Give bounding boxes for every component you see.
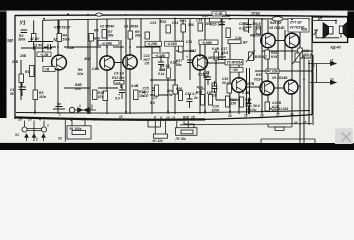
svg-text:2к: 2к bbox=[193, 96, 198, 100]
svg-text:56к: 56к bbox=[108, 34, 114, 38]
svg-text:2б3Б: 2б3Б bbox=[221, 14, 231, 18]
svg-text:47к: 47к bbox=[97, 95, 104, 99]
svg-text:R1: R1 bbox=[25, 70, 29, 74]
svg-text:15: 15 bbox=[244, 114, 248, 118]
svg-text:1: 1 bbox=[59, 113, 61, 117]
svg-text:V5 МП25А: V5 МП25А bbox=[227, 61, 244, 65]
svg-text:КС2.031.031: КС2.031.031 bbox=[269, 107, 289, 111]
svg-text:R24: R24 bbox=[197, 86, 203, 90]
svg-text:1.4х: 1.4х bbox=[235, 36, 242, 40]
svg-text:Б0к: Б0к bbox=[94, 37, 100, 41]
svg-text:~0.2дБ: ~0.2дБ bbox=[147, 42, 159, 46]
svg-text:R11 22к: R11 22к bbox=[112, 76, 125, 80]
svg-text:5.0: 5.0 bbox=[150, 101, 155, 105]
svg-text:СП: СП bbox=[145, 62, 150, 66]
svg-text:1: 1 bbox=[47, 124, 49, 128]
svg-text:V3 МП39: V3 МП39 bbox=[124, 25, 138, 29]
svg-text:390к: 390к bbox=[18, 38, 26, 42]
svg-text:У1: У1 bbox=[20, 21, 26, 27]
svg-text:С15: С15 bbox=[196, 19, 202, 23]
svg-text:х2: х2 bbox=[329, 78, 334, 82]
svg-text:МП25А: МП25А bbox=[250, 33, 262, 37]
svg-text:24Б: 24Б bbox=[11, 60, 19, 64]
svg-text:Х2: Х2 bbox=[57, 137, 62, 141]
svg-text:50: 50 bbox=[10, 92, 14, 96]
svg-text:~0.2дБ: ~0.2дБ bbox=[155, 54, 167, 58]
svg-text:С14: С14 bbox=[172, 21, 178, 25]
svg-text:R28 4.7: R28 4.7 bbox=[255, 55, 268, 59]
svg-text:хх: хх bbox=[293, 120, 298, 124]
svg-text:+: + bbox=[246, 108, 248, 112]
svg-text:100.5: 100.5 bbox=[252, 22, 261, 26]
svg-text:18: 18 bbox=[290, 113, 294, 117]
svg-text:С13: С13 bbox=[150, 21, 156, 25]
svg-text:+: + bbox=[186, 55, 188, 59]
svg-text:R30: R30 bbox=[176, 87, 182, 91]
svg-text:R32: R32 bbox=[196, 91, 202, 95]
svg-text:V1 КТ315Г: V1 КТ315Г bbox=[54, 26, 72, 30]
svg-text:R8: R8 bbox=[94, 29, 98, 33]
svg-text:~1В: ~1В bbox=[232, 68, 239, 72]
svg-text:0.1О: 0.1О bbox=[239, 27, 247, 31]
svg-text:~0.01В: ~0.01В bbox=[166, 42, 177, 46]
svg-text:~2.04В: ~2.04В bbox=[101, 41, 112, 45]
svg-text:~5.06В: ~5.06В bbox=[201, 41, 212, 45]
svg-text:2: 2 bbox=[35, 138, 38, 142]
svg-text:V9 П214Б: V9 П214Б bbox=[272, 76, 288, 80]
svg-text:ЛУТ ВУ: ЛУТ ВУ bbox=[289, 21, 303, 25]
svg-text:VII П214Е: VII П214Е bbox=[290, 26, 306, 30]
svg-text:КУ4: КУ4 bbox=[271, 55, 277, 59]
svg-text:1б00: 1б00 bbox=[212, 108, 220, 112]
svg-text:0.1В: 0.1В bbox=[198, 73, 206, 77]
svg-text:4Н8: 4Н8 bbox=[83, 57, 90, 61]
svg-text:R1 100к: R1 100к bbox=[70, 127, 82, 131]
svg-text:150: 150 bbox=[245, 102, 251, 106]
svg-text:С№: С№ bbox=[250, 108, 256, 112]
svg-text:28к: 28к bbox=[134, 34, 141, 38]
svg-text:R1б 1.8к: R1б 1.8к bbox=[210, 23, 224, 27]
svg-text:R22: R22 bbox=[160, 20, 166, 24]
svg-text:ЛУ 32к: ЛУ 32к bbox=[175, 137, 187, 141]
svg-text:С1б: С1б bbox=[202, 14, 209, 18]
svg-text:С20: С20 bbox=[239, 22, 245, 26]
svg-text:4: 4 bbox=[69, 118, 72, 122]
svg-text:R25 ВУ: R25 ВУ bbox=[270, 21, 282, 25]
svg-text:9С 32к: 9С 32к bbox=[153, 139, 164, 143]
svg-text:14: 14 bbox=[228, 114, 232, 118]
svg-text:СП: СП bbox=[144, 94, 149, 98]
svg-text:хх: хх bbox=[302, 120, 307, 124]
svg-text:V4 МП39Б: V4 МП39Б bbox=[203, 56, 220, 60]
svg-text:150: 150 bbox=[231, 102, 237, 106]
svg-text:42 БУ: 42 БУ bbox=[29, 37, 40, 41]
svg-text:11: 11 bbox=[172, 116, 176, 120]
svg-text:R37: R37 bbox=[256, 73, 263, 77]
svg-text:5.1к: 5.1к bbox=[158, 72, 165, 76]
svg-text:ЗД: ЗД bbox=[53, 38, 58, 42]
svg-text:20: 20 bbox=[27, 118, 32, 122]
svg-text:20.0: 20.0 bbox=[221, 81, 229, 85]
svg-text:0.1В: 0.1В bbox=[170, 61, 178, 65]
svg-text:30.0: 30.0 bbox=[253, 104, 260, 108]
svg-text:~7.2дБ: ~7.2дБ bbox=[267, 70, 279, 74]
svg-text:7: 7 bbox=[82, 118, 84, 122]
svg-text:V2 МП40: V2 МП40 bbox=[100, 25, 114, 29]
svg-text:~0.4В: ~0.4В bbox=[214, 12, 224, 16]
svg-text:100к: 100к bbox=[63, 37, 71, 41]
svg-text:х1: х1 bbox=[329, 59, 334, 63]
svg-text:4.4В: 4.4В bbox=[130, 84, 139, 88]
svg-text:ЛООб: ЛООб bbox=[301, 56, 312, 60]
svg-text:П214: П214 bbox=[254, 78, 262, 82]
svg-text:С1 50: С1 50 bbox=[33, 44, 42, 48]
svg-text:15к: 15к bbox=[167, 93, 173, 97]
svg-text:Х1: Х1 bbox=[14, 133, 19, 137]
svg-text:ЗД0: ЗД0 bbox=[7, 39, 14, 43]
svg-text:4Ук: 4Ук bbox=[74, 87, 81, 91]
svg-text:R1б: R1б bbox=[183, 116, 190, 120]
svg-text:110к: 110к bbox=[39, 95, 46, 99]
svg-text:ВУ: ВУ bbox=[243, 40, 248, 44]
svg-text:~0.2В: ~0.2В bbox=[40, 53, 50, 57]
svg-text:0.7В: 0.7В bbox=[247, 82, 255, 86]
svg-text:С4В: С4В bbox=[92, 67, 99, 71]
svg-text:6.4В: 6.4В bbox=[212, 47, 220, 51]
svg-text:З.8В: З.8В bbox=[67, 46, 75, 50]
svg-text:12: 12 bbox=[119, 115, 123, 119]
svg-text:1Ок: 1Ок bbox=[77, 72, 84, 76]
svg-text:СВ: СВ bbox=[45, 68, 50, 72]
svg-text:R21: R21 bbox=[180, 19, 186, 23]
svg-text:24Б: 24Б bbox=[19, 54, 27, 58]
svg-text:17: 17 bbox=[276, 113, 280, 117]
svg-text:5.0: 5.0 bbox=[115, 97, 120, 101]
svg-text:10: 10 bbox=[166, 116, 170, 120]
svg-text:9: 9 bbox=[154, 116, 156, 120]
svg-text:С4 1.0: С4 1.0 bbox=[114, 72, 124, 76]
svg-text:V8 П214Б: V8 П214Б bbox=[269, 26, 285, 30]
svg-text:4: 4 bbox=[38, 118, 41, 122]
svg-text:390: 390 bbox=[188, 23, 194, 27]
svg-text:С11: С11 bbox=[186, 40, 192, 44]
svg-text:С12: С12 bbox=[190, 49, 196, 53]
svg-text:0.7В: 0.7В bbox=[242, 91, 250, 95]
svg-text:Д8.5: Д8.5 bbox=[220, 51, 228, 55]
svg-text:КД-4б: КД-4б bbox=[331, 45, 342, 49]
svg-text:16: 16 bbox=[260, 113, 264, 117]
